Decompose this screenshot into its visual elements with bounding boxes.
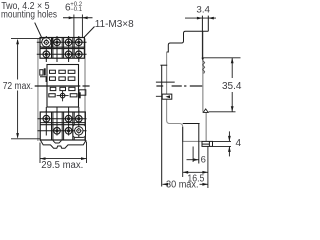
bottom block crosshair lines xyxy=(38,111,87,138)
side view: ledge line xyxy=(156,81,175,83)
front view: gray body side edges xyxy=(37,39,39,142)
screw terminal center dots, bottom block xyxy=(45,117,81,132)
svg-text:35.4: 35.4 xyxy=(222,81,242,92)
relay pin holes row A xyxy=(50,70,75,73)
svg-text:mounting holes: mounting holes xyxy=(1,9,57,20)
horizontal center line, front view xyxy=(35,85,81,87)
label: 6 +0.2 -0.1 xyxy=(65,2,83,14)
svg-text:6: 6 xyxy=(201,155,206,166)
dimension 30 max. xyxy=(163,183,208,186)
rounded cell around bottom-right mounting hole xyxy=(73,125,86,138)
svg-text:29.5 max.: 29.5 max. xyxy=(41,160,83,171)
rounded cell around top-left mounting hole xyxy=(40,38,53,48)
dimension 35.4 xyxy=(203,58,241,112)
side view: terminal screw profile xyxy=(203,61,205,74)
dimension 6 (rail hook) xyxy=(187,147,199,163)
side view: latch detail xyxy=(156,94,172,99)
svg-text:30 max.: 30 max. xyxy=(166,180,199,191)
side view: gray back edge xyxy=(202,31,204,112)
screw terminals, bottom block white fills xyxy=(43,115,82,134)
relay pin holes row D with center hole xyxy=(49,94,77,97)
leader line to top-left mounting hole xyxy=(35,23,43,40)
leader line from 11-M3x8 to terminal block xyxy=(84,27,95,38)
rail edge triangle detail xyxy=(203,109,208,113)
horizontal center line, side view xyxy=(156,85,202,87)
mounting hole screw (top-left, 4.2x5) xyxy=(42,38,51,47)
dimension 72 max. xyxy=(11,39,40,139)
side view: stepped top profile xyxy=(167,31,209,52)
front view: bottom terminal block outline xyxy=(40,112,85,140)
svg-text:72 max.: 72 max. xyxy=(3,81,33,92)
svg-text:11-M3×8: 11-M3×8 xyxy=(95,19,134,30)
front view: top terminal block outline xyxy=(40,38,84,59)
relay mounting recess outline xyxy=(47,65,79,108)
bottom skirt with rail notches xyxy=(40,140,86,148)
dimension 3.4 xyxy=(185,17,216,20)
side view: rail hook box xyxy=(183,124,213,164)
side view: gray inner front edge and bottom step xyxy=(167,52,202,141)
connector stubs between recess and bottom block xyxy=(46,107,79,112)
relay pin holes row B xyxy=(50,77,75,81)
side view: top DIN tab xyxy=(202,16,208,58)
svg-text:−0.1: −0.1 xyxy=(70,7,83,13)
top block crosshair lines xyxy=(37,36,87,60)
dimension line for 6 xyxy=(63,15,93,38)
connector stubs between top block and relay recess xyxy=(46,58,79,62)
center locating hole xyxy=(57,91,69,101)
relay pin holes row C xyxy=(50,87,75,90)
svg-text:4: 4 xyxy=(236,138,242,149)
dimension 4 xyxy=(213,131,232,156)
dimension 16.5 xyxy=(183,127,208,188)
mounting hole screw (bottom-right, 4.2x5) xyxy=(75,127,83,135)
screw terminals, top block white fills xyxy=(43,39,82,58)
label: Two, 4.2 x 5 mounting holes xyxy=(1,1,57,20)
screw tip mark xyxy=(201,58,204,61)
side view: front terminal block edge xyxy=(160,64,167,66)
left retaining clip xyxy=(40,70,48,82)
right release clip xyxy=(79,90,86,99)
dimension 29.5 max. xyxy=(40,142,87,164)
svg-text:3.4: 3.4 xyxy=(196,4,210,14)
screw terminal center dots, top block xyxy=(45,41,81,56)
